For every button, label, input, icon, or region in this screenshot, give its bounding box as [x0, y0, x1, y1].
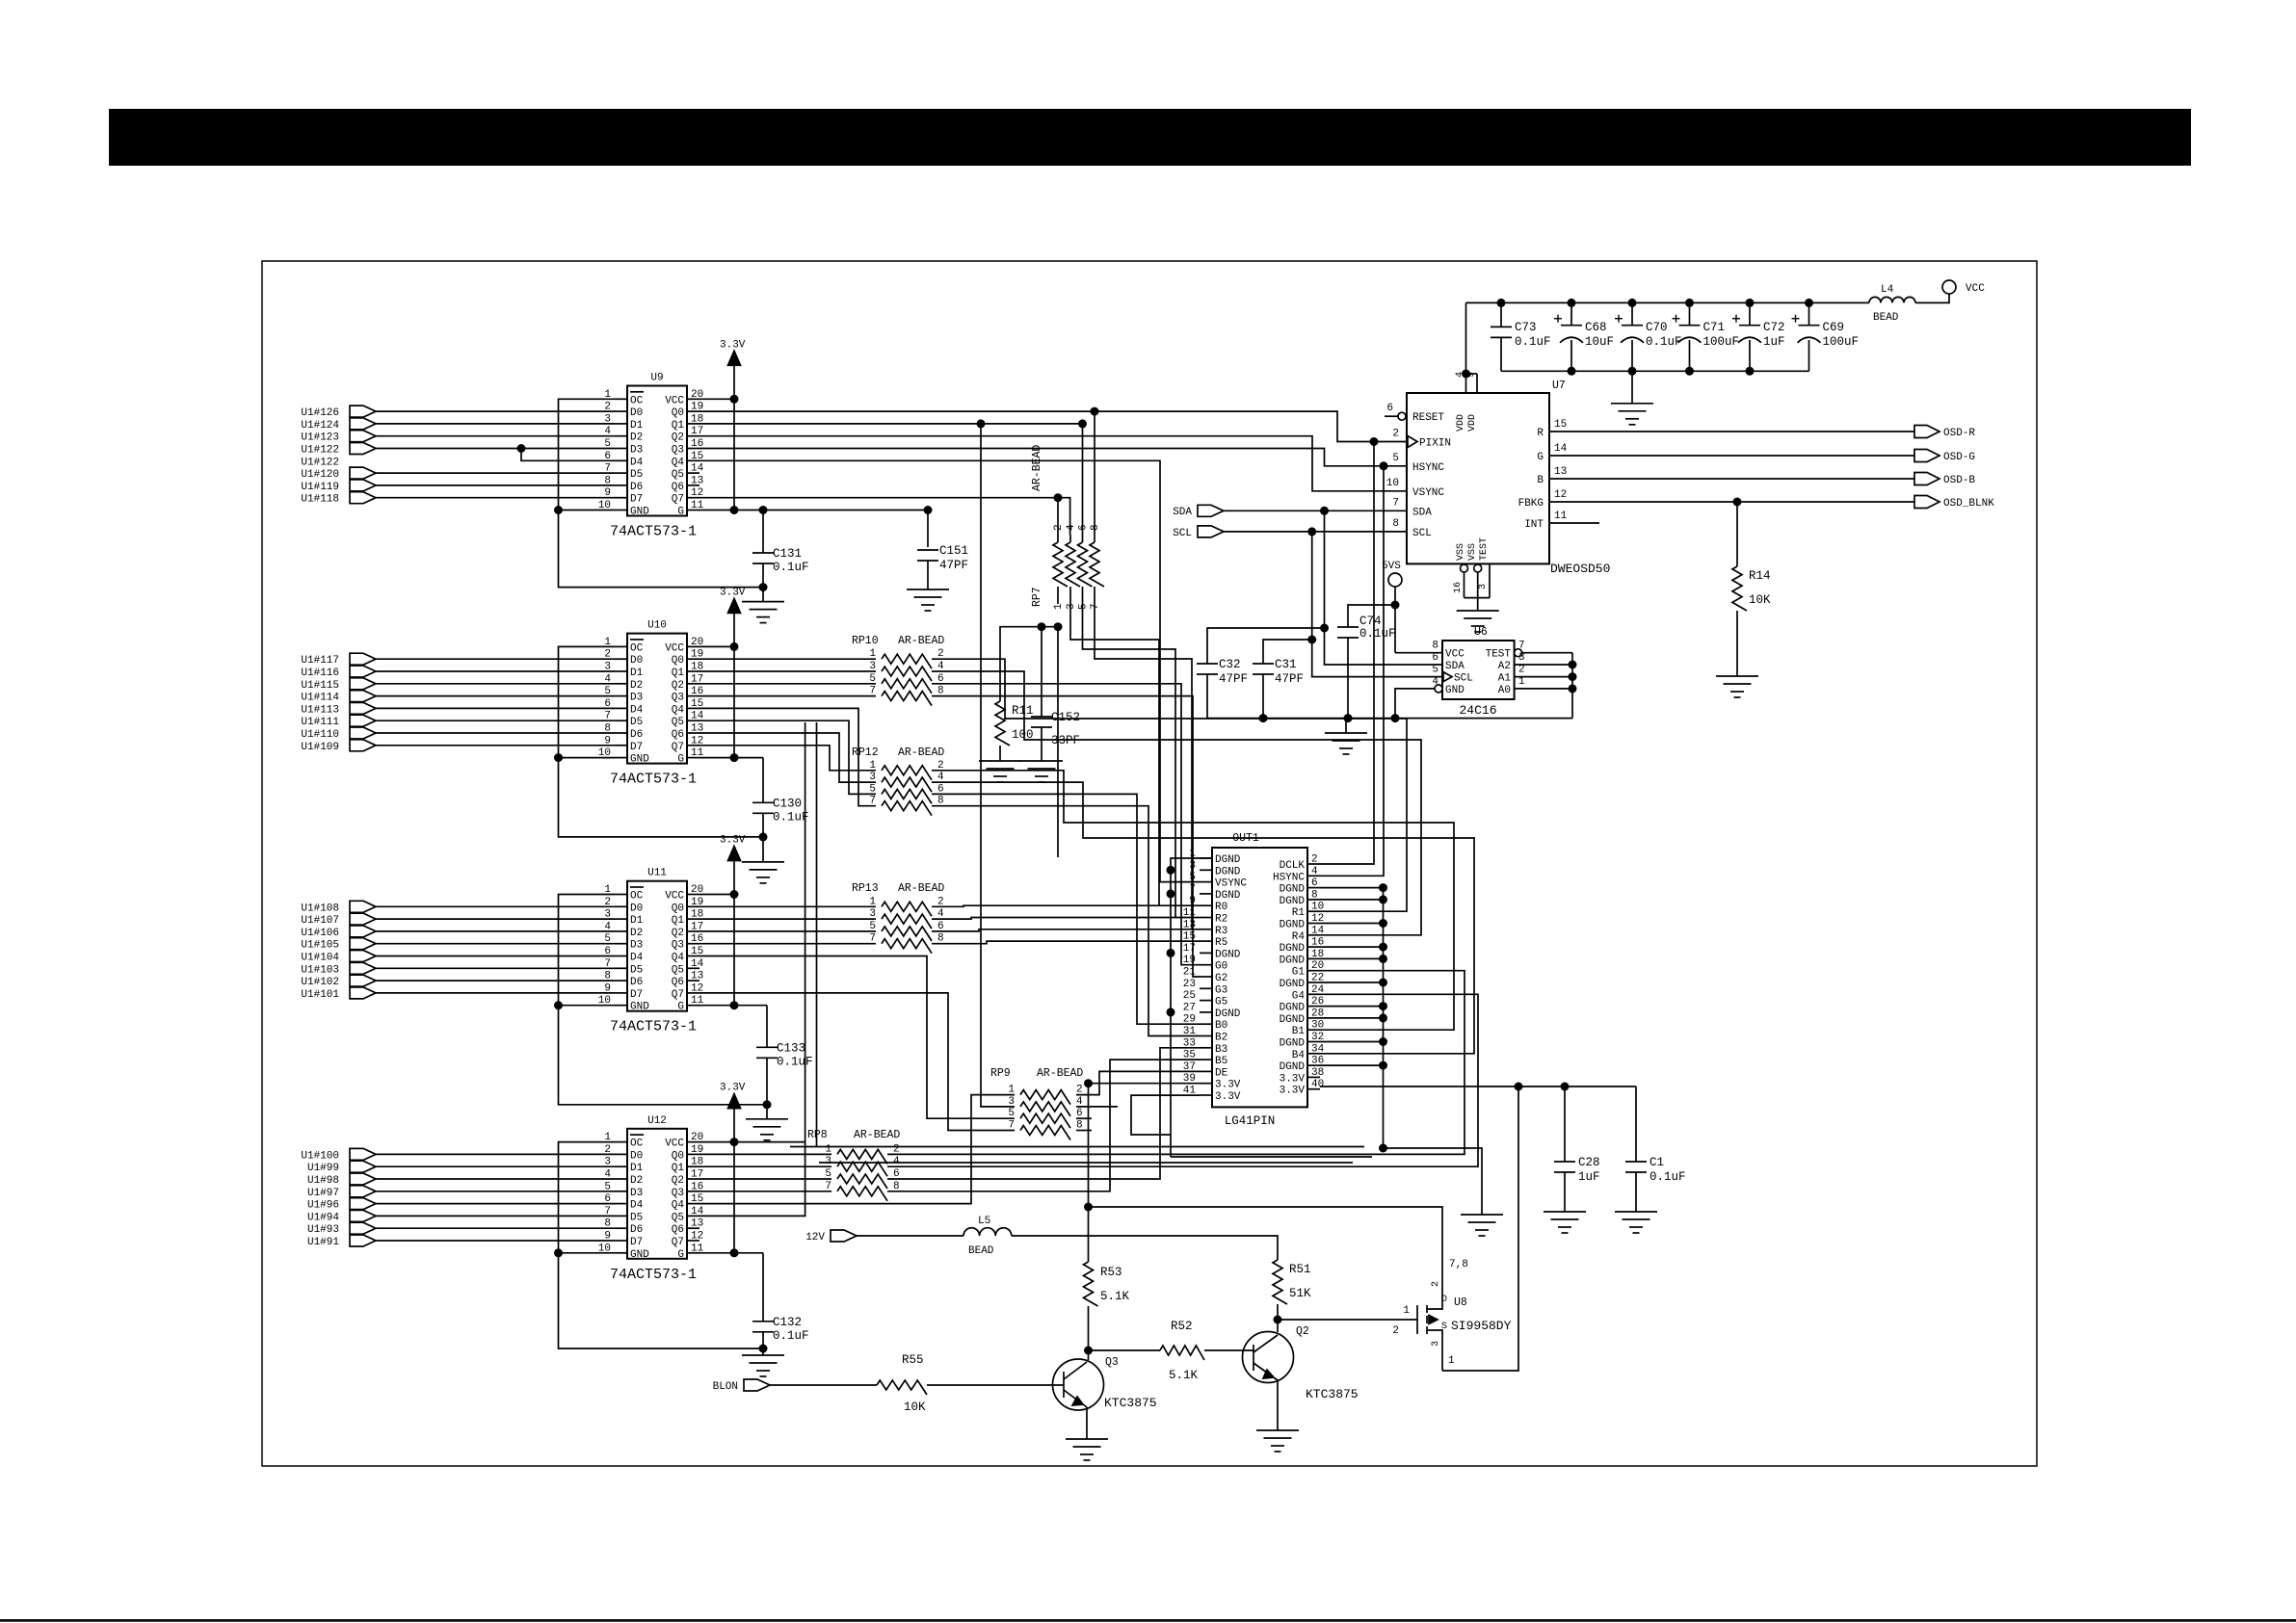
- svg-text:L4: L4: [1881, 284, 1894, 296]
- svg-text:DGND: DGND: [1215, 890, 1241, 902]
- svg-text:C68: C68: [1585, 321, 1607, 334]
- wire U1#123 to U9 D2: [376, 435, 615, 437]
- ground symbol under U6 rail: [1325, 732, 1367, 734]
- U11 pin 19 Q0: [687, 905, 699, 907]
- svg-text:24: 24: [1311, 984, 1325, 996]
- svg-text:DGND: DGND: [1280, 896, 1306, 907]
- svg-text:Q1: Q1: [672, 668, 685, 679]
- svg-text:3: 3: [1066, 603, 1077, 610]
- svg-text:VDD: VDD: [1467, 414, 1478, 432]
- U6 TEST pin circle: [1515, 649, 1522, 657]
- wire U1#108 to U11 D0: [376, 905, 615, 907]
- wire U10 Q6 to RP12 pin3: [699, 733, 876, 782]
- junction top rail at C73: [1497, 299, 1506, 307]
- ground symbol under Q3: [1066, 1438, 1108, 1440]
- svg-text:13: 13: [1183, 919, 1196, 930]
- capacitor C70 0.1uF: [1628, 299, 1637, 307]
- U6 GND pin circle: [1435, 685, 1442, 693]
- svg-text:U1#126: U1#126: [301, 407, 339, 419]
- svg-text:33: 33: [1183, 1037, 1196, 1049]
- wire U9 G row to C151: [927, 510, 929, 548]
- svg-text:U1#115: U1#115: [301, 680, 339, 692]
- svg-text:RP12: RP12: [852, 746, 879, 759]
- svg-text:Q7: Q7: [672, 742, 684, 753]
- wire DGND stub: [1320, 923, 1384, 925]
- wire U1#116 to U10 D1: [376, 670, 615, 672]
- svg-text:0.1uF: 0.1uF: [1649, 1170, 1686, 1184]
- ground symbol under R14: [1716, 675, 1758, 677]
- svg-text:U1#110: U1#110: [301, 729, 339, 741]
- wire RP7 pin8 tap from Q0: [1091, 407, 1099, 416]
- wire RP8 pin2 to OUT1 G1: [887, 971, 1465, 1155]
- svg-text:GND: GND: [630, 1002, 649, 1013]
- wire L4 to VCC terminal: [1915, 294, 1949, 302]
- svg-text:DGND: DGND: [1280, 1038, 1306, 1050]
- U9 pin 16 Q3: [687, 448, 699, 450]
- svg-text:OC: OC: [630, 395, 644, 406]
- svg-text:Q6: Q6: [672, 977, 684, 988]
- svg-text:KTC3875: KTC3875: [1306, 1387, 1359, 1401]
- svg-text:Q0: Q0: [672, 407, 684, 419]
- wire U10 Q5 to RP12 pin5: [699, 720, 876, 794]
- U10 pin 19 Q0: [687, 658, 699, 660]
- wire U9 Q1 extension to RP7: [981, 423, 1083, 425]
- svg-text:13: 13: [691, 971, 703, 982]
- U12 pin 18 Q1: [687, 1165, 699, 1167]
- svg-text:5: 5: [1392, 453, 1399, 464]
- svg-text:C74: C74: [1359, 615, 1382, 628]
- wire OUT1 pin40 3.3V to C28/C1: [1320, 1086, 1636, 1087]
- schematic frame border: [262, 261, 2037, 1466]
- wire U8 source loop to 3.3V: [1442, 1086, 1518, 1371]
- svg-text:47PF: 47PF: [1219, 672, 1248, 686]
- wire RP12 pin2 to OUT1 B1 (staircase): [932, 771, 1454, 1030]
- svg-text:OSD-R: OSD-R: [1943, 428, 1975, 439]
- U12 pin 17 Q2: [687, 1178, 699, 1180]
- svg-text:8: 8: [1311, 889, 1318, 901]
- U10 pin 9 D7: [615, 745, 627, 746]
- svg-text:Q3: Q3: [1105, 1356, 1119, 1369]
- svg-text:0.1uF: 0.1uF: [1646, 335, 1682, 349]
- node U1#96 input connector: [350, 1198, 376, 1210]
- U12 pin 11 G: [687, 1252, 699, 1254]
- wire U1#114 to U10 D3: [376, 695, 615, 697]
- OUT1 pin 41 3.3V: [1200, 1094, 1212, 1096]
- svg-text:U1#109: U1#109: [301, 742, 339, 753]
- svg-text:U1#119: U1#119: [301, 482, 339, 493]
- wire ground rail under U6: [1207, 718, 1572, 720]
- svg-text:5: 5: [1189, 872, 1196, 883]
- svg-text:27: 27: [1183, 1002, 1196, 1013]
- U12 pin 14 Q5: [687, 1215, 699, 1217]
- wire U10 GND return to ground: [559, 757, 616, 759]
- node U1#119 input connector: [350, 480, 376, 491]
- svg-text:38: 38: [1311, 1067, 1324, 1079]
- wire R53 to Q3 collector: [1088, 1306, 1090, 1360]
- junction SDA/C32: [1320, 624, 1329, 633]
- svg-text:Q4: Q4: [672, 953, 685, 964]
- svg-text:U1#93: U1#93: [307, 1224, 339, 1236]
- node U1#108 input connector: [350, 901, 376, 912]
- capacitor C31 47PF: [1263, 640, 1312, 664]
- svg-text:C71: C71: [1703, 321, 1726, 334]
- wire RP9 pin2 to OUT1 DE: [1076, 1071, 1200, 1094]
- svg-text:D6: D6: [630, 482, 643, 493]
- wire U1#119 to U9 D6: [376, 484, 615, 486]
- resistor R14 10K: [1736, 502, 1738, 566]
- svg-text:B2: B2: [1215, 1033, 1227, 1044]
- svg-text:R4: R4: [1292, 931, 1306, 943]
- svg-text:DGND: DGND: [1280, 979, 1306, 990]
- U7 pin 6 RESET: [1385, 415, 1398, 417]
- U10 pin 15 Q4: [687, 707, 699, 709]
- U7 VDD pins 4 and 9: [1465, 302, 1467, 393]
- U11 pin 9 D7: [615, 992, 627, 994]
- node U1#120 input connector: [350, 467, 376, 479]
- OUT1 pin 30 B1: [1307, 1029, 1320, 1031]
- wire U12 Q1 to RP8 pin3: [699, 1165, 831, 1167]
- U10 pin 1 OC: [615, 645, 627, 647]
- wire U12 Q5 vertical: [699, 722, 805, 1216]
- node U1#103 input connector: [350, 962, 376, 974]
- svg-text:Q7: Q7: [672, 494, 684, 506]
- svg-text:Q6: Q6: [672, 482, 684, 493]
- OUT1 pin 35 B5: [1200, 1059, 1212, 1060]
- OUT1 pin 21 G2: [1200, 976, 1212, 978]
- svg-text:DGND: DGND: [1280, 1061, 1306, 1073]
- junction bottom rail: [1746, 367, 1755, 376]
- svg-text:U1#100: U1#100: [301, 1150, 339, 1162]
- svg-text:SDA: SDA: [1445, 661, 1465, 672]
- wire SCL down to U6: [1312, 532, 1442, 677]
- U11 pin 17 Q2: [687, 930, 699, 932]
- svg-text:8: 8: [1090, 524, 1101, 531]
- OUT1 pin 25 G5: [1200, 1000, 1212, 1002]
- svg-text:24C16: 24C16: [1459, 703, 1496, 718]
- U12 pin 20 VCC: [687, 1141, 699, 1143]
- svg-text:100uF: 100uF: [1823, 335, 1860, 349]
- svg-text:Q1: Q1: [672, 420, 685, 432]
- svg-text:U8: U8: [1454, 1296, 1467, 1309]
- junction C152 top: [1038, 622, 1046, 631]
- svg-text:RP13: RP13: [852, 882, 879, 895]
- svg-text:R11: R11: [1012, 704, 1034, 718]
- svg-text:S: S: [1441, 1322, 1447, 1332]
- U9 pin 6 D4: [615, 459, 627, 461]
- svg-text:D6: D6: [630, 1224, 643, 1236]
- svg-text:RP8: RP8: [807, 1129, 828, 1141]
- svg-text:Q7: Q7: [672, 1237, 684, 1248]
- svg-text:GND: GND: [630, 754, 649, 766]
- svg-text:L5: L5: [978, 1216, 990, 1227]
- junction PIXIN/DCLK: [1370, 437, 1379, 446]
- U9 pin 13 Q6: [687, 484, 699, 486]
- wire U7 to OSD-G: [1549, 455, 1914, 457]
- ground symbol under C131: [759, 583, 768, 591]
- svg-text:D1: D1: [630, 420, 644, 432]
- ground symbol under C28: [1544, 1211, 1586, 1213]
- svg-text:B3: B3: [1215, 1044, 1227, 1056]
- svg-text:U1#120: U1#120: [301, 469, 339, 481]
- wire DGND stub: [1320, 1006, 1384, 1008]
- wire U10 Q3 to RP10 pin7: [699, 695, 876, 697]
- node U1#115 input connector: [350, 678, 376, 690]
- svg-text:74ACT573-1: 74ACT573-1: [610, 1267, 697, 1283]
- mosfet U8 SI9958DY: [1416, 1305, 1418, 1334]
- svg-text:C133: C133: [777, 1041, 805, 1055]
- capacitor C152 33PF: [1041, 627, 1042, 717]
- wire U1#98 to U12 D2: [376, 1178, 615, 1180]
- svg-text:D3: D3: [630, 1188, 643, 1199]
- capacitor C73 0.1uF: [1500, 302, 1502, 327]
- svg-text:34: 34: [1311, 1043, 1325, 1055]
- svg-text:AR-BEAD: AR-BEAD: [1031, 445, 1043, 491]
- node U1#117 input connector: [350, 653, 376, 665]
- svg-text:C1: C1: [1649, 1156, 1664, 1169]
- node U1#124 input connector: [350, 418, 376, 430]
- U10 pin 4 D2: [615, 683, 627, 685]
- junction Q3 collector node: [1084, 1347, 1093, 1355]
- U9 pin 20 VCC: [687, 398, 699, 400]
- svg-text:Q4: Q4: [672, 457, 685, 468]
- wire DGND stub: [1320, 946, 1384, 948]
- node U1#110 input connector: [350, 727, 376, 739]
- svg-text:7,8: 7,8: [1449, 1259, 1468, 1270]
- wire U7 to OSD-B: [1549, 478, 1914, 480]
- svg-text:SDA: SDA: [1173, 507, 1192, 518]
- svg-text:12: 12: [1554, 489, 1567, 501]
- svg-text:DGND: DGND: [1280, 955, 1306, 966]
- latch IC U11 74ACT573-1 body: [627, 881, 687, 1011]
- wire U11 Q1 through RP13 to OUT1 R pins: [699, 918, 876, 920]
- svg-text:VSS: VSS: [1467, 543, 1478, 561]
- OUT1 pin 26 DGND: [1307, 1006, 1320, 1008]
- svg-text:21: 21: [1183, 967, 1197, 979]
- svg-text:U1#102: U1#102: [301, 977, 339, 988]
- U12 pin 1 OC: [615, 1141, 627, 1143]
- svg-text:DCLK: DCLK: [1280, 860, 1306, 872]
- wire RP9 pin8 stub: [1076, 1130, 1092, 1132]
- U9 pin 10 GND: [615, 510, 627, 511]
- ground symbol under cap row: [1611, 403, 1653, 405]
- wire SDA to U7: [1224, 510, 1407, 511]
- resistor R53 5.1K: [1088, 1207, 1090, 1262]
- svg-text:14: 14: [691, 463, 704, 475]
- svg-text:4: 4: [1455, 372, 1465, 378]
- svg-text:C31: C31: [1275, 658, 1297, 671]
- U10 pin 13 Q6: [687, 732, 699, 734]
- node U1#98 input connector: [350, 1173, 376, 1185]
- svg-text:D0: D0: [630, 655, 643, 667]
- wire OUT1 right DGND bus: [1383, 888, 1385, 1148]
- svg-text:11: 11: [1183, 907, 1197, 919]
- node OSD_BLNK output connector: [1914, 496, 1940, 509]
- svg-text:Q2: Q2: [672, 432, 684, 444]
- U9 pin 7 D5: [615, 472, 627, 474]
- wire Q2 emitter to ground: [1277, 1380, 1279, 1430]
- svg-text:U1#116: U1#116: [301, 668, 339, 679]
- U10 pin 12 Q7: [687, 745, 699, 746]
- wire RP12 pin6 to OUT1 B0: [932, 794, 1200, 1024]
- svg-text:3.3V: 3.3V: [1215, 1091, 1241, 1103]
- OUT1 pin 5 VSYNC: [1200, 881, 1212, 883]
- wire U1#100 to U12 D0: [376, 1153, 615, 1155]
- svg-text:Q2: Q2: [1296, 1325, 1309, 1338]
- U10 pin 6 D4: [615, 707, 627, 709]
- OUT1 pin 2 DCLK: [1307, 863, 1320, 865]
- svg-text:C131: C131: [773, 547, 802, 561]
- latch IC U9 74ACT573-1 body: [627, 386, 687, 516]
- svg-text:SI9958DY: SI9958DY: [1451, 1319, 1512, 1333]
- capacitor C132 0.1uF: [762, 1253, 764, 1322]
- svg-text:KTC3875: KTC3875: [1104, 1396, 1157, 1410]
- wire Q2 collector to U8 gate: [1278, 1319, 1417, 1321]
- svg-text:VSYNC: VSYNC: [1215, 878, 1247, 890]
- junction 3.3V at C28: [1561, 1083, 1570, 1091]
- svg-text:U1#91: U1#91: [307, 1237, 339, 1248]
- wire U12 G row to C132: [699, 1252, 763, 1254]
- svg-text:3.3V: 3.3V: [1215, 1080, 1241, 1091]
- node U1#106 input connector: [350, 926, 376, 937]
- node U1#105 input connector: [350, 938, 376, 950]
- capacitor C28 1uF: [1564, 1086, 1566, 1162]
- wire U1#103 to U11 D5: [376, 967, 615, 969]
- wire OUT1 pin39 3.3V to R53/U8 drain: [1089, 1083, 1201, 1085]
- svg-text:8: 8: [1432, 641, 1438, 652]
- node U1#101 input connector: [350, 987, 376, 999]
- svg-text:Q3: Q3: [672, 693, 684, 704]
- U9 pin 5 D3: [615, 448, 627, 450]
- OUT1 pin 7 DGND: [1200, 893, 1212, 895]
- wire U1#109 to U10 D7: [376, 745, 615, 746]
- svg-text:1uF: 1uF: [1763, 335, 1785, 349]
- svg-text:A2: A2: [1498, 661, 1511, 672]
- wire U1#101 to U11 D7: [376, 992, 615, 994]
- svg-text:C28: C28: [1578, 1156, 1600, 1169]
- svg-text:SCL: SCL: [1412, 528, 1432, 539]
- junction Q2 collector: [1274, 1316, 1282, 1324]
- OUT1 pin 13 R3: [1200, 929, 1212, 930]
- svg-text:9: 9: [1466, 372, 1477, 378]
- svg-text:74ACT573-1: 74ACT573-1: [610, 772, 697, 788]
- svg-text:D4: D4: [630, 953, 644, 964]
- junction SCL/C31: [1307, 636, 1316, 644]
- U11 pin 6 D4: [615, 955, 627, 957]
- svg-text:10K: 10K: [904, 1400, 926, 1414]
- svg-text:DGND: DGND: [1215, 866, 1241, 877]
- svg-text:VSYNC: VSYNC: [1412, 487, 1444, 499]
- node U1#102 input connector: [350, 975, 376, 986]
- wire DGND stub: [1320, 982, 1384, 983]
- svg-text:Q3: Q3: [672, 940, 684, 952]
- svg-text:R52: R52: [1171, 1320, 1193, 1333]
- wire U7 to OSD-R: [1549, 431, 1914, 432]
- wire U11 Q3 through RP13 to OUT1 R pins: [699, 943, 876, 945]
- latch IC U10 74ACT573-1 body: [627, 634, 687, 764]
- wire below OUT1 texture 1: [790, 1146, 1364, 1148]
- OUT1 pin 27 DGND: [1200, 1011, 1212, 1013]
- svg-text:2: 2: [1431, 1281, 1441, 1287]
- svg-text:GND: GND: [1445, 685, 1465, 696]
- U10 pin 17 Q2: [687, 683, 699, 685]
- resistor R52 5.1K: [1160, 1346, 1204, 1360]
- wire U11 GND return to ground: [559, 1005, 616, 1007]
- capacitor C72 1uF: [1746, 299, 1755, 307]
- wire RP12 pin8 to OUT1 B2: [932, 806, 1200, 1036]
- U10 pin 10 GND: [615, 757, 627, 759]
- svg-text:9: 9: [1189, 896, 1196, 907]
- OUT1 pin 38 3.3V: [1307, 1076, 1320, 1078]
- node U1#97 input connector: [350, 1186, 376, 1197]
- wire U6 TEST/A2/A1/A0 to ground rail: [1522, 652, 1572, 654]
- wire U11 Q2 through RP13 to OUT1 R pins: [699, 930, 876, 932]
- svg-text:U1#122: U1#122: [301, 445, 339, 457]
- wire U1#91 to U12 D7: [376, 1240, 615, 1242]
- svg-text:3: 3: [1478, 584, 1489, 589]
- svg-text:11: 11: [1554, 510, 1568, 522]
- svg-text:D: D: [1441, 1295, 1447, 1305]
- svg-text:7: 7: [1189, 883, 1196, 895]
- U9 pin 19 Q0: [687, 410, 699, 412]
- OUT1 pin 6 DGND: [1307, 887, 1320, 889]
- svg-text:B5: B5: [1215, 1056, 1227, 1067]
- svg-text:47PF: 47PF: [939, 559, 968, 572]
- wire 3.3V rail U11: [733, 861, 735, 1006]
- capacitor C32 47PF: [1207, 628, 1325, 664]
- U10 pin 16 Q3: [687, 695, 699, 697]
- node VCC terminal: [1942, 280, 1956, 294]
- wire U12 Q0 to RP8 pin1: [699, 1153, 831, 1155]
- svg-text:35: 35: [1183, 1050, 1196, 1061]
- svg-text:U1#122: U1#122: [301, 457, 339, 468]
- node U1#91 input connector: [350, 1235, 376, 1246]
- ground symbol under C133: [763, 1100, 772, 1109]
- U9 pin 4 D2: [615, 435, 627, 437]
- OUT1 pin 36 DGND: [1307, 1064, 1320, 1066]
- wire 3.3V rail U10: [733, 613, 735, 757]
- svg-text:VCC: VCC: [1445, 649, 1465, 661]
- svg-text:0.1uF: 0.1uF: [1359, 627, 1396, 641]
- wire bottom rail of decoupling caps: [1501, 370, 1809, 372]
- svg-text:12: 12: [691, 1231, 703, 1243]
- ground symbol under R11: [979, 760, 1021, 762]
- wire DGND stub: [1320, 1041, 1384, 1043]
- svg-text:C32: C32: [1219, 658, 1241, 671]
- svg-text:G: G: [1537, 452, 1544, 463]
- svg-text:U1#101: U1#101: [301, 989, 339, 1001]
- wire U9 G row to C131: [699, 510, 928, 511]
- U11 pin 16 Q3: [687, 943, 699, 945]
- node U1#123 input connector: [350, 431, 376, 442]
- wire 3.3V rail U9: [733, 365, 735, 510]
- capacitor C151 47PF: [917, 549, 938, 551]
- inductor L4 BEAD: [1869, 297, 1915, 302]
- svg-text:16: 16: [1453, 582, 1464, 593]
- wire U12 Q4 to RP9 pin1: [699, 1095, 1015, 1204]
- svg-text:D6: D6: [630, 729, 643, 741]
- wire DGND bus bottom link: [1171, 1156, 1372, 1158]
- U12 pin 8 D6: [615, 1227, 627, 1229]
- svg-text:OUT1: OUT1: [1232, 832, 1259, 845]
- svg-text:10: 10: [1386, 478, 1399, 489]
- OUT1 pin 11 R2: [1200, 917, 1212, 919]
- wire U9 Q1 down to RP9 pin3: [699, 424, 1015, 1107]
- svg-text:1: 1: [1403, 1305, 1410, 1317]
- svg-text:Q0: Q0: [672, 1150, 684, 1162]
- svg-text:5: 5: [1078, 603, 1090, 610]
- OUT1 pin 37 DE: [1200, 1070, 1212, 1072]
- OUT1 pin 15 R5: [1200, 940, 1212, 942]
